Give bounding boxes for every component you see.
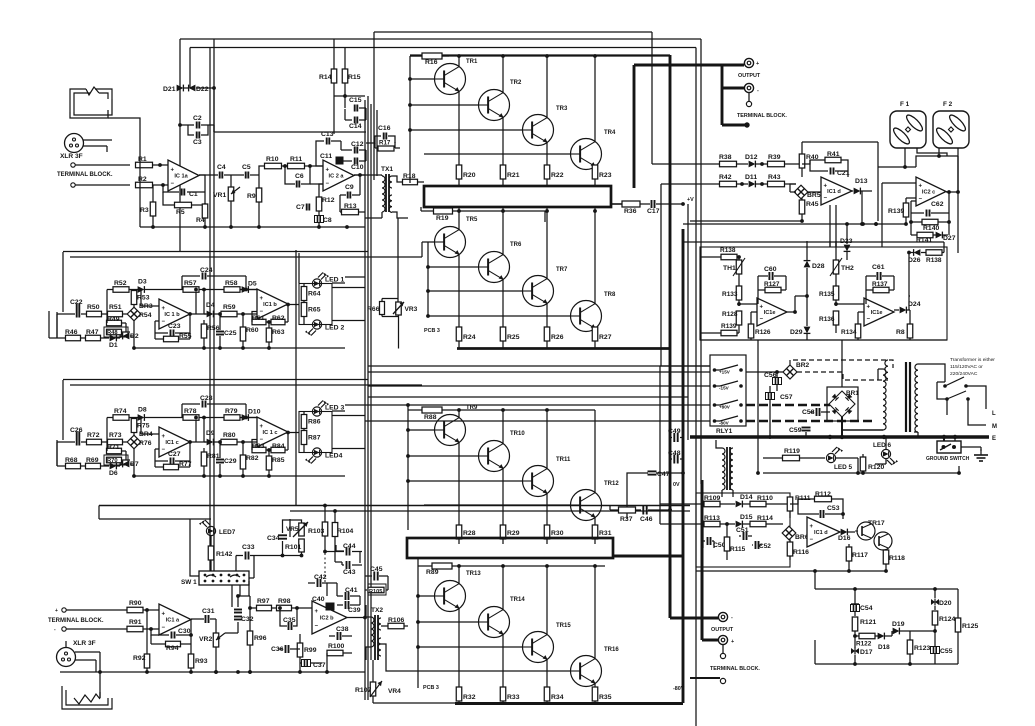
svg-text:R87: R87 [308,435,321,442]
wire y224 rail [683,222,906,226]
capacitor C10 [343,158,366,172]
svg-text:C33: C33 [242,544,255,551]
transistor TR16 [571,647,620,687]
wire left vert x49 [49,311,57,338]
svg-text:C48: C48 [668,450,681,457]
svg-text:+15V: +15V [719,370,731,375]
diode D26 [907,249,921,264]
wire mid rail [202,288,217,314]
svg-text:C28: C28 [200,395,213,402]
svg-text:C34: C34 [267,535,280,542]
capacitor C3 [188,125,208,146]
resistor R3 [140,185,156,227]
svg-text:R31: R31 [599,530,612,537]
svg-text:-: - [54,627,56,633]
mains switch 1 [943,377,986,409]
svg-text:TR4: TR4 [604,130,616,136]
resistor R121 [852,617,876,648]
label +V top [687,197,694,203]
svg-text:C59: C59 [789,427,802,434]
svg-text:PCB 3: PCB 3 [423,685,439,691]
svg-text:−: − [162,625,166,631]
wire right vertical x701 [700,39,702,484]
capacitor C25 [216,312,237,350]
wire VR1 to C5 [231,174,244,176]
svg-text:R26: R26 [551,334,564,341]
svg-text:R36: R36 [624,208,637,215]
resistor R100 [327,643,352,656]
resistor R46 [57,329,86,341]
wire mid vertical x296 [296,250,299,505]
wire right edge drop [957,192,959,253]
wire IC1e b conn [834,296,866,312]
svg-text:TR1: TR1 [466,59,478,65]
wire TR16 base rail [434,670,570,672]
svg-text:R126: R126 [755,329,771,336]
resistor R41 [802,151,848,177]
relay contact 4 [713,416,743,426]
pot VR5 [286,522,308,537]
resistor R85 [266,450,284,478]
resistor R30 [544,525,563,544]
wire y596 link [238,595,250,597]
svg-text:IC1 d: IC1 d [814,530,828,536]
svg-text:R73: R73 [109,432,122,439]
resistor R32 [456,687,475,704]
wire TR11 base rail [406,479,522,483]
wire IC in [141,418,159,450]
dashed link BR2 to TX [790,360,893,380]
svg-text:D27: D27 [943,235,956,242]
capacitor C54 [851,589,873,616]
wire IC1a out [199,174,218,176]
resistor R98 [277,598,313,611]
wire lower rails [408,409,595,411]
wire BR2 net [746,371,783,373]
resistor R135 [819,274,839,306]
resistor R103 [308,504,328,554]
wire thick drop to out [669,559,672,618]
resistor R53 [131,291,149,308]
op-amp IC 1 c [257,417,288,447]
box protection outline [696,493,790,567]
resistor R13 [340,203,365,215]
svg-text:R60: R60 [246,327,259,334]
svg-text:R25: R25 [507,334,520,341]
resistor R22 [544,165,563,186]
wire R66 frame [382,299,399,317]
resistor R88 [422,407,442,421]
svg-text:LED 6: LED 6 [873,442,892,449]
pot VR2 [199,619,225,674]
svg-text:D12: D12 [745,154,758,161]
svg-text:VR5: VR5 [286,526,299,533]
wire gs conn [944,437,981,451]
svg-text:D1: D1 [109,342,118,349]
label XLR 3F [60,153,83,160]
wire snubber top [815,571,855,589]
wire IC2a out to TX1 [354,174,377,176]
label TERMINAL BLOCK bottom right [710,666,760,672]
svg-text:R42: R42 [719,174,732,181]
label transformer note [950,357,995,377]
svg-text:115/120VAC or: 115/120VAC or [950,364,983,370]
wire input left vertical [139,160,141,227]
svg-text:−: − [326,181,330,187]
svg-text:R76: R76 [139,440,152,447]
svg-text:R121: R121 [860,619,876,626]
transistor TR2 [479,80,522,121]
wire prot box feeds [682,492,684,494]
wire snubber frame [853,587,958,598]
resistor R36 [622,201,650,215]
wire loopback [126,323,130,332]
resistor R20 [456,165,475,186]
svg-text:R112: R112 [815,491,831,498]
svg-text:C30: C30 [178,628,191,635]
wire TX2 pri [366,605,371,660]
wire R38 row [652,163,719,165]
resistor R57 [155,280,204,292]
bridge BR3 [127,303,153,321]
svg-text:TR17: TR17 [868,520,885,527]
wire IC2 inputs [246,289,257,291]
svg-text:M: M [992,424,997,430]
capacitor C38 [329,626,352,640]
svg-text:TR7: TR7 [556,267,568,273]
svg-text:D13: D13 [855,178,868,185]
resistor R111 [787,495,810,518]
svg-text:C42: C42 [314,574,327,581]
wire channel frame left [57,252,63,338]
wire IC2c + in [882,183,916,247]
svg-text:C8: C8 [323,217,332,224]
capacitor C32 [234,603,254,633]
svg-text:+: + [315,609,319,615]
resistor R60 [240,314,258,350]
diode D2 [123,333,139,340]
transistor TR15 [523,623,572,663]
wire R88 drop [406,403,410,530]
svg-text:−: − [867,317,871,323]
diode D29 [790,294,810,340]
bridge BR5 [790,185,821,199]
resistor R63 [266,322,284,350]
svg-text:C5: C5 [242,164,251,171]
resistor R101 [285,539,304,557]
svg-text:TH2: TH2 [841,265,854,272]
wire TR1 base rail [408,77,434,81]
wire switch link [937,382,947,399]
svg-text:R39: R39 [768,154,781,161]
wire thick output feed [634,64,750,128]
svg-text:R59: R59 [223,304,236,311]
svg-text:IC1 b: IC1 b [263,302,277,308]
bus bar rect top [424,186,611,207]
svg-text:R15: R15 [348,74,361,81]
wire sec leads [842,369,883,430]
wire thermal bottom [700,339,947,341]
resistor R107 [355,660,376,703]
capacitor C41 [337,583,360,600]
wire x360 vert [359,551,361,605]
resistor R134 [841,312,861,340]
resistor R142 [208,536,232,571]
wire bus bottom right thick [613,555,683,558]
wire R1 to IC1a [152,163,168,167]
resistor R69 [86,457,110,469]
wire thick top collector rail [410,54,670,56]
wire TR2 emitter [502,118,504,165]
svg-text:C9: C9 [345,184,354,191]
label TERMINAL BLOCK top [57,172,113,178]
wire VR2 wiper [225,632,236,634]
op-amp IC1e b [864,298,894,326]
svg-text:D18: D18 [878,644,890,651]
wire jack2 drop [99,692,101,698]
svg-text:R100: R100 [328,643,344,650]
resistor R65 [301,303,320,325]
svg-text:C2: C2 [193,115,202,122]
diode D9 [204,430,217,445]
wire x290 to top [289,519,291,537]
svg-text:C11: C11 [320,153,332,160]
wire bottom input rail [60,670,365,674]
wire IC1e a conn [737,296,797,314]
terminal small circle bottom 2 [720,678,725,683]
svg-text:R90: R90 [129,600,142,607]
svg-text:R10: R10 [266,156,279,163]
svg-text:R116: R116 [793,549,809,556]
svg-text:C56: C56 [764,372,777,379]
box LED section [299,412,365,453]
thermistor TH1 [723,255,745,276]
wire TR4 emitter [594,165,596,167]
svg-text:GROUND SWITCH: GROUND SWITCH [926,456,970,462]
resistor R110 [750,495,790,507]
wire thick bus x683 [682,229,685,703]
jack plug J2 [62,686,112,709]
wire TR3 col [545,54,549,117]
wire IC2 out [288,304,299,306]
wire R11 to IC2a [305,164,323,168]
svg-text:R72: R72 [87,432,100,439]
wire IC2a inputs [310,183,323,185]
wire right vertical x652 [651,32,653,164]
resistor R96 [247,596,266,674]
LED LED4 [305,448,343,464]
svg-text:R1: R1 [138,156,147,163]
resistor R118 [883,550,905,573]
svg-text:IC 1 b: IC 1 b [164,312,180,318]
svg-text:D14: D14 [740,494,753,501]
svg-text:R20: R20 [463,172,476,179]
svg-text:R123: R123 [914,645,930,652]
wire terminal link [748,93,750,101]
svg-text:IC2 b: IC2 b [320,616,334,622]
label R54 [139,312,152,319]
svg-text:R125: R125 [962,623,978,630]
svg-text:C51: C51 [736,527,749,534]
resistor R28 [456,525,475,544]
diode D10 [242,409,261,421]
capacitor C23 [155,314,190,339]
svg-text:TR8: TR8 [604,292,616,298]
resistor R137 [866,276,894,296]
pot VR4 [370,681,401,697]
output terminal - bottom [718,635,734,645]
label F 1 [900,101,910,108]
svg-text:D16: D16 [838,535,851,542]
capacitor C42 [308,574,337,587]
wire D6 net [120,449,136,478]
wire F1 leads [903,148,947,169]
svg-text:R17: R17 [379,140,391,147]
resistor R26 [544,327,563,348]
wire jack to input [70,99,140,160]
capacitor C56 [764,370,782,391]
wire IC in [141,290,159,322]
resistor R72 [87,432,108,445]
label GROUND SWITCH [926,456,970,462]
thick dashed -80V [746,420,874,423]
resistor R93 [188,644,207,674]
transistor TR9 [435,405,478,446]
svg-text:D24: D24 [908,301,921,308]
wire IC2c out right [957,156,959,192]
svg-text:D15: D15 [740,514,753,521]
capacitor C53 [798,499,845,518]
wire term link bottom [722,645,724,653]
resistor R87 [301,431,320,453]
wire channel bottom rail [134,347,345,349]
svg-text:D3: D3 [138,279,147,286]
svg-text:R101: R101 [285,544,301,551]
resistor R97 [257,598,277,611]
svg-text:R128: R128 [722,311,738,318]
resistor R122 [855,633,878,647]
resistor R23 [592,165,611,186]
resistor R51 [108,304,128,317]
svg-text:R99: R99 [304,647,317,654]
resistor R39 [756,154,802,167]
svg-text:C32: C32 [241,616,254,623]
svg-text:D4: D4 [206,302,215,309]
svg-text:IC 2 a: IC 2 a [329,174,345,180]
relay contact 1 [713,365,743,375]
resistor R43 [756,174,796,187]
wire mid rail [202,416,217,442]
wire D28 to IC1e [795,296,807,312]
svg-text:VR3: VR3 [405,306,418,313]
svg-text:R119: R119 [784,448,800,455]
wire BR5 in [790,184,821,192]
svg-text:D22: D22 [196,86,209,93]
bridge BR2 [783,362,810,379]
resistor R56 [201,320,219,350]
svg-text:+: + [171,167,175,173]
wire C44 left [336,545,344,551]
resistor R106 [381,617,408,629]
wire sw1 upper rails [98,506,100,520]
wire rail y511 [290,510,690,512]
svg-text:−: − [162,319,166,325]
wire IC2c out [946,190,960,194]
wire TR6 base rail [426,265,478,269]
capacitor C5 [242,164,259,179]
wire TR4 col [593,54,597,141]
svg-text:R85: R85 [272,457,285,464]
wire psu left bundle [660,366,664,524]
wire mid vertical pair B [370,104,372,660]
svg-text:C55: C55 [940,648,953,655]
resistor R42 [719,174,737,187]
resistor R11 [282,156,305,169]
resistor R80 [217,432,257,445]
svg-text:TX2: TX2 [371,607,383,614]
diode D4 [204,302,217,317]
svg-text:TR10: TR10 [510,431,525,437]
diode D20 [931,599,952,611]
svg-text:+: + [810,524,814,530]
capacitor C48 [668,450,682,464]
svg-text:R82: R82 [246,455,259,462]
op-amp IC1 b [257,289,288,319]
wire TX1 vertical pair [374,32,377,180]
svg-text:+: + [756,61,759,67]
capacitor C17 [647,200,685,215]
wire TR13-16 emitters [459,609,595,688]
svg-text:R135: R135 [819,291,835,298]
svg-text:TR6: TR6 [510,242,522,248]
wire D1 net [120,321,136,350]
wire TR10 base rail [406,454,478,458]
svg-text:−: − [824,196,828,202]
resistor R70 [104,455,128,465]
svg-text:-80V: -80V [673,686,685,692]
label OUTPUT top [738,73,761,79]
resistor R71 [107,442,127,454]
svg-text:D8: D8 [138,407,147,414]
op-amp IC1a [168,160,199,191]
label M [992,424,997,430]
wire top rail 1 [374,31,652,33]
svg-text:R104: R104 [337,528,353,535]
pot VR1 [213,175,240,227]
resistor R33 [500,687,519,704]
svg-text:R51: R51 [109,304,122,311]
resistor R73 [108,432,128,445]
resistor R138b [909,242,944,310]
svg-text:R47: R47 [86,329,99,336]
resistor R8 [896,310,913,340]
svg-text:0V: 0V [673,482,680,488]
resistor R123 [907,631,930,666]
wire D26 line [909,295,910,297]
svg-text:R124: R124 [939,616,955,623]
resistor R113 [696,515,735,527]
capacitor C16 [378,125,391,140]
svg-text:D19: D19 [892,621,905,628]
wire top rail 3 [190,47,696,49]
main thick ground line [690,435,989,439]
resistor R117 [846,544,868,573]
svg-text:IC2 c: IC2 c [922,190,935,196]
transistor TR17a [855,522,875,540]
svg-text:−: − [162,447,166,453]
resistor R124 [932,611,955,631]
wire R37 left [609,505,611,510]
